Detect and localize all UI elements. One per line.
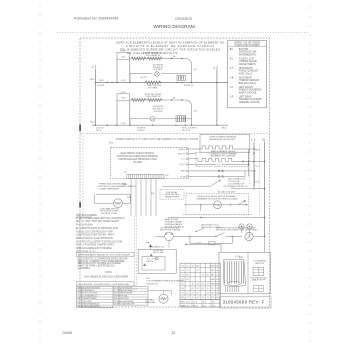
resistor surface element RF1 xyxy=(131,57,146,60)
svg-text:N 4A: N 4A xyxy=(181,175,186,178)
broil element terminal pair xyxy=(218,170,220,172)
wire top run circuit 2 xyxy=(130,99,185,101)
bake element dashed box xyxy=(196,152,249,166)
door switch symbol xyxy=(216,233,225,237)
svg-text:N.C.: N.C. xyxy=(146,278,151,280)
svg-text:HIGH REAR: HIGH REAR xyxy=(239,77,252,80)
svg-text:COLOR/CODE - COLOR/CODIGO - CO: COLOR/CODE - COLOR/CODIGO - COULEUR/CODE xyxy=(78,284,129,286)
door motor bus wire xyxy=(155,235,165,237)
svg-text:BKW: BKW xyxy=(216,284,220,286)
wire bottom bus circuit 1 xyxy=(96,82,229,84)
svg-text:CLIMAT THERMIQUE: CLIMAT THERMIQUE xyxy=(99,187,120,190)
svg-text:RATINGS AT 240V A 240V: RATINGS AT 240V A 240V xyxy=(210,138,236,141)
wiring color codes legend box xyxy=(228,41,267,108)
svg-text:X4: X4 xyxy=(196,297,198,299)
svg-text:BKW: BKW xyxy=(211,284,215,286)
svg-text:PRECAUCION Y ELECTRONICOS.: PRECAUCION Y ELECTRONICOS. xyxy=(76,237,114,240)
svg-text:LEFT REAR: LEFT REAR xyxy=(239,96,252,99)
svg-text:(P) CONNECTOR BK-2 N: (P) CONNECTOR BK-2 N xyxy=(224,186,248,188)
svg-text:X20: X20 xyxy=(211,297,214,299)
svg-text:A T: A T xyxy=(230,67,234,70)
door latch motor assembly dashed box xyxy=(186,193,249,214)
svg-text:4-8 P: 4-8 P xyxy=(121,92,127,94)
svg-text:X4: X4 xyxy=(196,270,198,272)
relay coil chart grid xyxy=(180,263,220,299)
electronic oven control box EOC xyxy=(111,148,189,179)
svg-text:X4: X4 xyxy=(207,293,209,295)
inner dashed margin line left xyxy=(82,136,84,216)
EOC pin circles and exit wires xyxy=(186,148,196,177)
indicator lamp circuit 2 xyxy=(150,117,155,122)
svg-text:4L: 4L xyxy=(207,288,209,290)
junction dots top run circuit 1 xyxy=(171,58,172,59)
instructions note lines xyxy=(76,217,125,254)
door latch switch xyxy=(238,201,244,204)
P9 ellipse detail xyxy=(228,281,241,285)
svg-text:FAN (IN-RUSH).: FAN (IN-RUSH). xyxy=(76,224,93,227)
wire bottom run right xyxy=(186,244,221,246)
wire broil to rail xyxy=(245,170,255,172)
svg-text:N18: N18 xyxy=(211,270,214,272)
surface element circuit heading text xyxy=(116,41,224,55)
svg-text:SUR LA POSITION D ARRET (OFF).: SUR LA POSITION D ARRET (OFF). xyxy=(76,244,115,247)
svg-text:6-8 120V: 6-8 120V xyxy=(154,111,163,113)
svg-text:6-8 240V: 6-8 240V xyxy=(154,69,163,71)
svg-text:TRASERO IZQUIERD: TRASERO IZQUIERD xyxy=(239,98,262,101)
svg-text:4-6 2P: 4-6 2P xyxy=(141,77,148,79)
svg-text:L R: L R xyxy=(230,97,234,99)
third oven row wire xyxy=(196,176,245,178)
svg-text:LEFT FRONT: LEFT FRONT xyxy=(239,87,254,89)
svg-text:LUZ DEL HORNO: LUZ DEL HORNO xyxy=(241,230,258,232)
warning note lines xyxy=(78,258,128,270)
warning boxed line xyxy=(77,252,135,257)
svg-text:240 V: 240 V xyxy=(96,130,102,132)
fold dash-dot rule under title xyxy=(57,31,308,33)
svg-text:20: 20 xyxy=(192,297,194,299)
oven light to N rail wire xyxy=(253,235,264,237)
wire left drop middle run xyxy=(129,74,131,83)
P9 lower stripe group xyxy=(226,287,239,293)
wire relay riser right xyxy=(129,60,131,83)
svg-text:LOS CABLES AL LADO DE LA SECAD: LOS CABLES AL LADO DE LA SECADORA xyxy=(84,276,129,279)
probe jack circles xyxy=(239,224,244,229)
svg-text:X20: X20 xyxy=(216,297,219,299)
junction dots bus circuit 2 xyxy=(95,125,96,126)
latch detail triangles xyxy=(150,254,153,257)
svg-text:HIGH FRONT: HIGH FRONT xyxy=(239,68,254,70)
broil element row wire xyxy=(196,170,245,172)
svg-text:MOTOR DE PUERTA: MOTOR DE PUERTA xyxy=(160,229,181,232)
svg-text:2-6 P: 2-6 P xyxy=(196,242,202,244)
mini pin grid lower xyxy=(254,286,263,292)
svg-text:1LP: 1LP xyxy=(151,193,155,195)
right fold perforation marks xyxy=(309,7,310,341)
door motor circle xyxy=(165,232,174,241)
svg-text:MISE EN GARDE EST POSSIBLE: MISE EN GARDE EST POSSIBLE xyxy=(76,247,112,250)
svg-text:(P5) P5: (P5) P5 xyxy=(178,153,186,155)
latch detail outer box xyxy=(138,250,176,274)
part number box xyxy=(220,297,272,308)
svg-text:X4: X4 xyxy=(191,266,193,268)
svg-text:LATCH SW #1 N.O.: LATCH SW #1 N.O. xyxy=(201,223,220,226)
border tick mark 2 xyxy=(79,202,81,207)
wire L1 rail oven xyxy=(253,142,255,186)
wire L1 rail vertical xyxy=(95,69,97,125)
svg-text:BUTTON: BUTTON xyxy=(239,49,249,51)
svg-text:OVEN CIRCUIT /// CIRCUITO DE H: OVEN CIRCUIT /// CIRCUITO DE HORNO /// C… xyxy=(116,137,198,141)
svg-text:20: 20 xyxy=(202,284,204,286)
svg-text:24: 24 xyxy=(181,293,183,295)
svg-text:24: 24 xyxy=(181,284,183,286)
oven light lamp xyxy=(245,232,253,240)
wire relay riser right 2 xyxy=(129,101,131,125)
svg-text:L 1: L 1 xyxy=(92,65,97,69)
svg-text:THERMO SENSOR: THERMO SENSOR xyxy=(239,80,260,82)
svg-text:DETALLE "A": DETALLE "A" xyxy=(152,245,165,248)
svg-text:BA: BA xyxy=(230,48,234,51)
svg-text:B42: B42 xyxy=(211,275,214,277)
wire bottom bus circuit 2 xyxy=(92,124,228,126)
svg-text:UNITS P6: UNITS P6 xyxy=(255,263,265,265)
svg-text:SURF ACE ELEMENTS-LEVELS AT HE: SURF ACE ELEMENTS-LEVELS AT HEAT IN SURF… xyxy=(116,41,224,45)
svg-text:10-3 BK: 10-3 BK xyxy=(97,85,105,87)
border tick mark xyxy=(79,125,81,132)
svg-text:AVEC SALLY: AVEC SALLY xyxy=(239,72,253,75)
svg-text:24: 24 xyxy=(207,297,209,299)
door latch wire xyxy=(184,204,248,206)
latch detail inner box xyxy=(142,257,165,271)
svg-text:LATCH: LATCH xyxy=(147,260,154,263)
wire middle run circuit 1 xyxy=(130,73,153,75)
L1 rail hook to P9 box xyxy=(253,186,255,190)
svg-text:24: 24 xyxy=(197,288,199,290)
right rail junction dots xyxy=(253,152,255,154)
svg-text:N NEUTRAL/NEUTRE: N NEUTRAL/NEUTRE xyxy=(115,303,135,306)
indicator lamp circuit 1 xyxy=(155,72,160,77)
dashed companion rail right xyxy=(259,144,261,215)
svg-text:BA 4: BA 4 xyxy=(181,170,186,173)
svg-text:AVERTISSEMENT: RISQUE DE CHOC: AVERTISSEMENT: RISQUE DE CHOC ELECTRIQUE xyxy=(78,254,130,257)
wire left drop middle run 2 xyxy=(129,119,131,125)
resistor on bus circuit 1 xyxy=(145,81,161,84)
svg-text:20: 20 xyxy=(187,297,189,299)
resistor surface element RR1 xyxy=(131,98,146,101)
chart caption rows xyxy=(180,300,220,308)
svg-text:EL CIRCUITO ESTA ILLUSTRADO CO: EL CIRCUITO ESTA ILLUSTRADO CON xyxy=(76,227,118,230)
svg-text:FRENTE IZQUIERDO: FRENTE IZQUIERDO xyxy=(239,90,262,92)
terminal block circuit 1 xyxy=(177,75,185,80)
svg-text:WIRING DIAGRAM: WIRING DIAGRAM xyxy=(153,24,195,30)
P9 terminal block shape xyxy=(223,260,245,287)
svg-text:24: 24 xyxy=(181,270,183,272)
svg-text:CIRCUITS D ELEMENT DE SURFACE: CIRCUITS D ELEMENT DE SURFACE NIVEAUX xyxy=(126,44,214,48)
junction dots door latch xyxy=(200,204,201,205)
svg-text:2LA: 2LA xyxy=(127,196,131,199)
wire corner drop circuit 1 xyxy=(185,59,192,83)
svg-text:JUMPER FILLER: JUMPER FILLER xyxy=(239,61,257,63)
bake element lower square wave xyxy=(196,158,198,160)
svg-text:3LA: 3LA xyxy=(123,183,127,186)
svg-text:DLM: DLM xyxy=(215,205,220,207)
svg-text:L1 N: L1 N xyxy=(193,302,198,304)
svg-text:NOTA:: NOTA: xyxy=(106,271,113,274)
cooling fan motor xyxy=(159,294,168,303)
svg-text:ARRIERE GAUCHE: ARRIERE GAUCHE xyxy=(239,101,260,104)
svg-text:EN LA POS.: EN LA POS. xyxy=(146,282,158,285)
svg-text:BKW: BKW xyxy=(211,266,215,268)
svg-text:24: 24 xyxy=(192,293,194,295)
door latch box bottom dashed wire xyxy=(183,214,252,216)
svg-text:BR BROWN/CAFE/BRUN: BR BROWN/CAFE/BRUN xyxy=(78,305,101,308)
svg-text:IF RECTIFIERS USED WITH ALL CO: IF RECTIFIERS USED WITH ALL CONTROLS xyxy=(76,217,125,220)
relay box K1 xyxy=(117,53,130,60)
wire top run circuit 1 xyxy=(130,58,185,60)
svg-text:CONTROL DE HORNO ELECTRONICO: CONTROL DE HORNO ELECTRONICO xyxy=(117,156,159,158)
svg-text:FILLER L OUT: FILLER L OUT xyxy=(239,59,255,61)
svg-text:P9: P9 xyxy=(239,255,243,259)
svg-text:CFES367D: CFES367D xyxy=(175,17,193,21)
svg-text:ELECTRONIC OVEN CONTROL: ELECTRONIC OVEN CONTROL xyxy=(121,153,156,155)
svg-text:(P7): (P7) xyxy=(109,143,113,145)
svg-text:AL LADO DE 240V: AL LADO DE 240V xyxy=(218,190,236,193)
svg-text:ENSEMBLE MOTEUR DE VERROUILLAG: ENSEMBLE MOTEUR DE VERROUILLAGE xyxy=(196,197,238,200)
section divider dashed line xyxy=(80,133,270,135)
svg-text:16: 16 xyxy=(202,275,204,277)
svg-text:DEL ELEMENTO SUPERIOR CIRCUIT: DEL ELEMENTO SUPERIOR CIRCUIT TOP CIRCUI… xyxy=(120,47,220,51)
svg-text:20: 20 xyxy=(187,270,189,272)
color code table left xyxy=(77,286,114,308)
wire N rail oven xyxy=(264,142,266,236)
svg-text:INTERLOCK SW: INTERLOCK SW xyxy=(239,52,257,54)
svg-text:4L: 4L xyxy=(187,266,189,268)
svg-text:20: 20 xyxy=(181,279,183,281)
wire right riser 248 xyxy=(248,149,250,177)
svg-text:SET TO "OFF" UNIT MAY DRAW SLI: SET TO "OFF" UNIT MAY DRAW SLIGHT xyxy=(76,220,120,223)
svg-text:GND 1: GND 1 xyxy=(179,149,186,151)
svg-text:CONTROLES PUESTOS EN "APAG": CONTROLES PUESTOS EN "APAG" xyxy=(76,234,115,237)
svg-text:L 1: L 1 xyxy=(251,138,256,142)
label 2-6 wire xyxy=(196,163,216,165)
legend entries text xyxy=(230,48,262,104)
color code table right xyxy=(114,286,148,305)
legend title underline xyxy=(228,46,267,48)
P9 divider line xyxy=(247,252,249,293)
svg-text:4L: 4L xyxy=(187,293,189,295)
left fold perforation marks xyxy=(39,5,40,339)
dashed companion rail left xyxy=(249,144,251,187)
door latch motor DLM xyxy=(214,201,222,209)
wire relay riser left xyxy=(116,60,118,83)
P9 connector outer box xyxy=(219,252,270,293)
EOC right pin labels xyxy=(178,149,186,179)
EOC text xyxy=(117,153,159,164)
P connector wire xyxy=(162,185,206,187)
svg-text:B2: B2 xyxy=(207,275,209,277)
resistor surface element RF2 xyxy=(147,57,162,60)
svg-text:MOTEUR CONV: MOTEUR CONV xyxy=(101,213,117,215)
svg-text:INSTRUCCIONES:: INSTRUCCIONES: xyxy=(76,214,98,217)
mini pin grid upper xyxy=(253,267,264,275)
svg-text:A B: A B xyxy=(230,77,234,80)
N rail lower segment xyxy=(264,236,266,252)
svg-text:24: 24 xyxy=(181,275,183,277)
door latch drop wire xyxy=(200,205,202,211)
svg-text:X4: X4 xyxy=(186,279,188,281)
EOC drop wires xyxy=(130,178,132,216)
svg-text:X20: X20 xyxy=(211,293,214,295)
EOC connector strip P1 xyxy=(127,174,165,176)
svg-text:TODOS LOS CONTROLES A "OFF": TODOS LOS CONTROLES A "OFF" xyxy=(76,230,114,233)
junction dots lower wave xyxy=(242,161,244,163)
svg-text:X4: X4 xyxy=(181,266,183,268)
svg-text:316045689 REV: F: 316045689 REV: F xyxy=(223,300,265,305)
svg-text:AVANT GAUCHE: AVANT GAUCHE xyxy=(239,91,257,94)
svg-text:LATCH SW: LATCH SW xyxy=(153,251,163,254)
junction dots top run circuit 2 xyxy=(171,99,172,100)
terminal block circuit 2 xyxy=(176,116,186,122)
latch row switch xyxy=(196,228,204,232)
svg-text:BIRLANG SALLY: BIRLANG SALLY xyxy=(239,82,257,85)
svg-text:BAKE 2-4: BAKE 2-4 xyxy=(181,304,191,307)
color code header box xyxy=(77,282,135,286)
DLB relay text box xyxy=(160,190,184,200)
svg-text:24L: 24L xyxy=(211,288,214,290)
svg-text:LE CIRCUIT ILLUSTRE TOUTES LES: LE CIRCUIT ILLUSTRE TOUTES LES COM xyxy=(76,241,122,243)
thermal loop wire xyxy=(94,194,130,203)
svg-text:VER DETALLE "A": VER DETALLE "A" xyxy=(76,250,96,253)
svg-text:CABLES P6 P9: CABLES P6 P9 xyxy=(252,279,265,282)
svg-text:RELAIS VERR: RELAIS VERR xyxy=(165,196,179,199)
svg-text:B2: B2 xyxy=(202,297,204,299)
svg-text:B2: B2 xyxy=(191,288,193,290)
wire upper run to N rail xyxy=(168,217,265,219)
svg-text:BKW: BKW xyxy=(211,279,215,281)
junction dots bus circuit 1 xyxy=(95,82,96,83)
svg-text:B2: B2 xyxy=(202,288,204,290)
svg-text:L APPAREIL.: L APPAREIL. xyxy=(78,267,92,270)
svg-text:3LA: 3LA xyxy=(146,241,150,244)
svg-text:240 V 2P: 240 V 2P xyxy=(182,130,191,132)
svg-text:1LP: 1LP xyxy=(165,175,169,177)
svg-text:24: 24 xyxy=(197,284,199,286)
wire middle run circuit 2 xyxy=(130,118,150,120)
svg-text:L 2: L 2 xyxy=(214,66,219,70)
svg-text:12: 12 xyxy=(171,331,175,335)
wire lower loop bottom section xyxy=(190,242,232,244)
latch detail riser wire xyxy=(150,245,152,250)
svg-text:2-6 P: 2-6 P xyxy=(121,51,127,53)
convection fan motor xyxy=(114,199,123,208)
svg-text:ELEMENT DE CUISSON: ELEMENT DE CUISSON xyxy=(211,156,236,158)
probe jack wires xyxy=(241,229,243,233)
svg-text:LT 8 OHMS: LT 8 OHMS xyxy=(147,88,158,90)
svg-text:12 BK-8: 12 BK-8 xyxy=(137,130,145,132)
DLB switch symbol xyxy=(206,185,211,187)
wire relay riser left 2 xyxy=(116,101,118,125)
oven element ratings box xyxy=(200,135,250,153)
diagram dashed border frame xyxy=(80,38,270,307)
svg-text:CONTROLE ELECTRONIQUE FOUR: CONTROLE ELECTRONIQUE FOUR xyxy=(118,159,157,161)
wire L2 rail vertical xyxy=(216,70,218,126)
svg-text:Publication No: 5995434494: Publication No: 5995434494 xyxy=(74,17,118,21)
svg-text:INTERMEDIATE: INTERMEDIATE xyxy=(239,53,256,56)
cooling fan wires xyxy=(163,291,165,295)
svg-text:OVEN ELEMENT RATINGS: OVEN ELEMENT RATINGS xyxy=(209,136,237,139)
svg-text:JAUNE TERM N: JAUNE TERM N xyxy=(239,63,256,66)
resistor surface element RR2 xyxy=(147,98,162,101)
svg-text:B2: B2 xyxy=(181,288,183,290)
thermal fuse component lower loop xyxy=(209,242,215,245)
wire corner drop circuit 2 xyxy=(185,100,192,125)
svg-text:DE LA LUZ DEL HORNO: DE LA LUZ DEL HORNO xyxy=(216,229,240,232)
svg-text:20: 20 xyxy=(197,293,199,295)
svg-text:MOT 10-2: MOT 10-2 xyxy=(181,302,191,304)
svg-text:(10 288): (10 288) xyxy=(133,162,142,164)
latch detail circle xyxy=(156,257,159,260)
svg-text:(P4) 2: (P4) 2 xyxy=(180,164,187,166)
dashed drop wires to bottom xyxy=(134,216,136,290)
relay box K2 xyxy=(117,94,130,101)
svg-text:24: 24 xyxy=(207,284,209,286)
svg-text:04/05: 04/05 xyxy=(63,331,73,335)
latch detail stub xyxy=(168,241,170,248)
svg-text:SU-RF 14: SU-RF 14 xyxy=(184,85,194,87)
svg-text:FORCE QUADLEY: FORCE QUADLEY xyxy=(239,70,259,73)
svg-text:4L: 4L xyxy=(192,284,194,286)
bake element upper square wave xyxy=(196,148,200,150)
svg-text:B2: B2 xyxy=(186,275,188,277)
